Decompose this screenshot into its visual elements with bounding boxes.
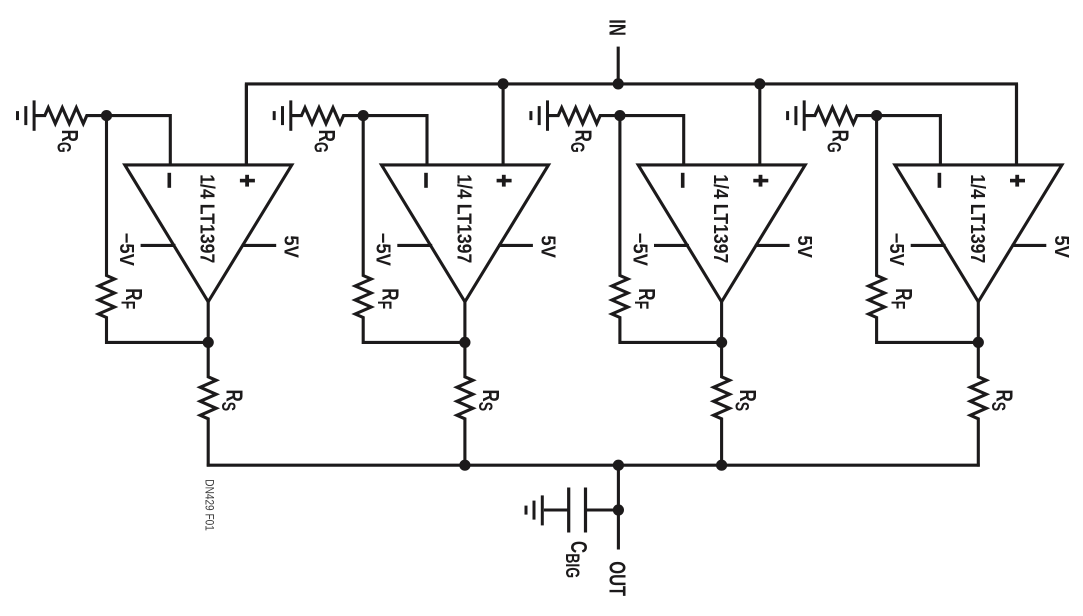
- svg-text:IN: IN: [604, 19, 629, 36]
- svg-text:OUT: OUT: [604, 561, 629, 597]
- svg-text:DN429 F01: DN429 F01: [202, 479, 215, 531]
- svg-text:CBIG: CBIG: [562, 541, 591, 578]
